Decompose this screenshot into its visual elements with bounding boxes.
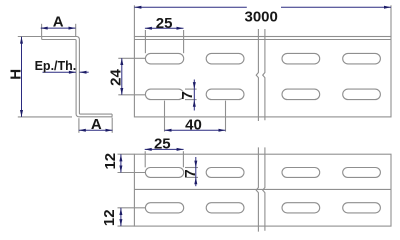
top bar slot row1 #2: [206, 53, 244, 64]
svg-text:A: A: [91, 116, 102, 133]
12 lower dim line: [120, 208, 122, 226]
A top dim line: [41, 27, 76, 29]
A bottom dim arrows: [79, 129, 86, 132]
svg-text:7: 7: [182, 169, 199, 177]
3000 dim right extension: [390, 5, 392, 36]
top bar slot row2 #1: [145, 89, 183, 100]
12 upper dim line: [120, 154, 122, 172]
bottom bar slot row2 #3: [282, 203, 320, 213]
12 upper dim arrows: [119, 154, 122, 161]
top bar slot row2 #2: [206, 89, 244, 100]
Z-profile cross-section outer contour: [42, 37, 112, 115]
top bar break line right: [263, 29, 265, 120]
25 top dim right extension: [183, 30, 185, 53]
bottom bar slot row1 #4: [343, 168, 381, 178]
svg-text:3000: 3000: [245, 9, 278, 26]
svg-text:A: A: [53, 13, 64, 30]
top bar break line left: [256, 29, 258, 121]
bottom bar slot row2 #1: [145, 203, 183, 213]
25 bottom dim arrows: [145, 148, 152, 151]
7 bottom dim arrows (converging): [194, 161, 197, 168]
A bottom dim line: [79, 129, 113, 131]
bottom bar slot row1 #3: [282, 168, 320, 178]
top bar slot row1 #1: [145, 53, 183, 64]
svg-text:24: 24: [108, 69, 125, 86]
12 lower dim bottom extension: [118, 225, 135, 227]
Z-profile right end cap: [111, 114, 113, 117]
A bottom dim left extension line: [78, 118, 80, 133]
7 top dim lower extension: [185, 99, 197, 101]
bottom bar slot row2 #2: [206, 203, 244, 213]
svg-text:25: 25: [156, 15, 173, 32]
svg-text:7: 7: [179, 91, 196, 99]
25 top dim arrows: [145, 27, 152, 30]
A top dim right extension line: [75, 24, 77, 37]
7 top dim line: [193, 80, 195, 111]
7 bottom dim line: [195, 157, 197, 186]
bottom bar outline: [134, 154, 391, 226]
svg-text:Ep./Th.: Ep./Th.: [35, 59, 77, 73]
12 upper dim top extension: [118, 153, 135, 155]
A bottom dim right extension line: [111, 118, 113, 133]
12 lower dim top extension: [118, 207, 146, 209]
Ep./Th. right arrow tail: [80, 71, 89, 73]
40 dim right extension: [225, 101, 227, 132]
H dim top extension line: [18, 36, 42, 38]
bottom bar break line right: [263, 147, 265, 230]
H dim bottom extension line: [18, 116, 72, 118]
40 dim left extension: [164, 101, 166, 132]
bottom bar slot row2 #4: [343, 203, 381, 213]
3000 dim left extension: [133, 5, 135, 36]
H dim line: [21, 37, 23, 117]
A top dim left extension line: [41, 24, 43, 36]
25 bottom dim line: [145, 148, 184, 150]
top bar fold line: [134, 39, 391, 41]
24 dim bottom extension: [118, 94, 145, 96]
7 top dim upper extension: [185, 88, 197, 90]
Z-profile left end cap: [41, 37, 43, 40]
25 top dim left extension: [144, 30, 146, 53]
12 lower dim arrows: [119, 208, 122, 215]
3000 dim line right segment: [281, 6, 391, 8]
top bar slot row1 #3: [282, 53, 320, 64]
24 dim top extension: [118, 57, 145, 59]
25 bottom dim right extension: [182, 151, 184, 167]
Ep./Th. leader line: [43, 71, 76, 73]
svg-text:12: 12: [102, 153, 119, 170]
7 bottom dim lower extension: [185, 176, 198, 178]
12 upper dim bottom extension: [118, 172, 146, 174]
24 dim arrows: [120, 58, 123, 65]
3000 dim line left segment: [134, 6, 246, 8]
7 top dim arrows (converging): [193, 82, 196, 89]
svg-text:40: 40: [185, 116, 202, 133]
svg-text:H: H: [7, 69, 24, 80]
Z-profile cross-section inner contour: [42, 40, 112, 117]
A top dim arrows: [41, 27, 48, 30]
7 bottom dim upper extension: [185, 167, 198, 169]
24 dim line: [121, 58, 123, 95]
svg-text:25: 25: [154, 135, 171, 152]
top bar slot row1 #4: [343, 53, 381, 64]
40 dim arrows: [165, 129, 172, 132]
top bar slot row2 #4: [343, 89, 381, 100]
40 dim line: [165, 129, 226, 131]
top bar outline: [134, 37, 391, 117]
25 top dim line: [145, 27, 184, 29]
bottom bar slot row1 #2: [206, 168, 244, 178]
bottom bar fold line: [134, 188, 391, 190]
25 bottom dim left extension: [144, 151, 146, 167]
Ep./Th. thickness arrows: [69, 71, 76, 74]
3000 dim arrows: [134, 6, 141, 9]
svg-text:12: 12: [101, 209, 118, 226]
H dim arrows: [20, 37, 23, 44]
bottom bar slot row1 #1: [145, 168, 183, 178]
bottom bar break line left: [256, 147, 258, 231]
top bar slot row2 #3: [282, 89, 320, 100]
